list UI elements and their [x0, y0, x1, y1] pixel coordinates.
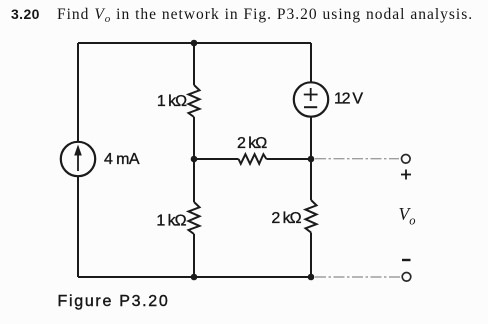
wire: right branch between source and middle node — [310, 116, 312, 200]
title: problem statement 3.20 — [11, 6, 473, 25]
node dot: middle branch at bottom rail — [191, 274, 198, 281]
svg-text:2 kΩ: 2 kΩ — [271, 210, 301, 227]
svg-text:1 kΩ: 1 kΩ — [157, 93, 187, 110]
svg-text:3.20: 3.20 — [11, 6, 40, 22]
minus sign (output polarity) — [402, 259, 411, 261]
node dot: middle branch at horizontal wire — [191, 156, 198, 163]
wire: middle branch between R1 and middle node — [193, 117, 195, 202]
node dot: right branch at bottom rail — [308, 274, 315, 281]
svg-text:Find Vo in the network in Fig.: Find Vo in the network in Fig. P3.20 usi… — [57, 6, 473, 25]
wire: right branch from top rail to voltage source — [310, 43, 312, 83]
resistor R2 2 kΩ (horizontal zigzag) — [239, 154, 267, 164]
svg-text:1 kΩ: 1 kΩ — [156, 213, 186, 230]
wire: middle branch from top rail to resistor R1 — [193, 43, 195, 85]
node dot: top of middle branch — [191, 40, 198, 47]
wire: middle branch between R3 and bottom rail — [193, 234, 195, 277]
svg-text:Vo: Vo — [399, 204, 416, 228]
resistor R3 1 kΩ (bottom middle, vertical zigzag) — [189, 202, 200, 234]
wire: bottom rail — [78, 276, 311, 278]
wire: middle horizontal right segment — [266, 158, 311, 160]
svg-text:2 kΩ: 2 kΩ — [237, 135, 267, 152]
wire: dash-dot lead to lower output terminal — [315, 276, 400, 278]
wire: left branch lower segment — [77, 176, 79, 277]
svg-text:Figure P3.20: Figure P3.20 — [58, 293, 170, 310]
resistor R4 2 kΩ (right, vertical zigzag) — [306, 200, 317, 233]
svg-text:12 V: 12 V — [334, 91, 363, 108]
current source I1 4 mA (circle with up arrow) — [61, 142, 95, 176]
wire: top rail from left branch to right branch — [78, 42, 311, 44]
svg-text:4 mA: 4 mA — [104, 151, 140, 168]
wire: left branch upper segment — [77, 43, 79, 142]
wire: middle horizontal left segment — [194, 158, 239, 160]
plus sign (output polarity) — [401, 170, 411, 180]
wire: right branch between R4 and bottom rail — [310, 233, 312, 278]
resistor R1 1 kΩ (top middle, vertical zigzag) — [189, 85, 200, 117]
terminal: upper output (open circle) — [402, 155, 411, 164]
voltage source V1 12 V (circle with plus/minus) — [294, 82, 328, 116]
wire: dash-dot lead to upper output terminal — [315, 158, 399, 160]
terminal: lower output (open circle) — [402, 273, 411, 282]
node dot: right branch at horizontal wire — [308, 156, 315, 163]
